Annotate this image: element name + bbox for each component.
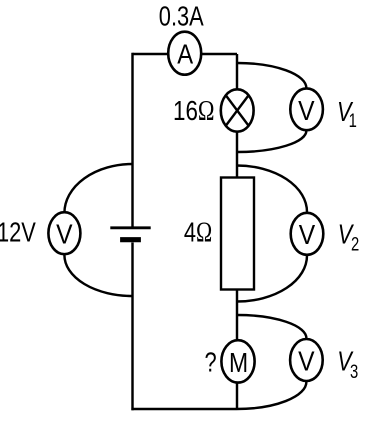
lamp cross stroke 2 (226, 95, 249, 126)
svg-text:M: M (229, 348, 248, 379)
lamp cross stroke 1 (226, 95, 249, 126)
wire: left side of loop (below battery) (131, 243, 133, 411)
battery cell (12V source): long thin positive plate (110, 226, 150, 229)
svg-text:0.3A: 0.3A (159, 1, 204, 32)
voltmeter V3 body (290, 339, 323, 381)
wire: arc from voltmeter V2 bottom to right wire (237, 256, 307, 302)
ammeter A1 body (168, 32, 201, 75)
svg-text:?: ? (205, 347, 217, 378)
wire: arc from right wire to voltmeter V3 top (237, 315, 306, 338)
wire: arc from left wire to voltmeter V (12V) top (64, 164, 132, 213)
svg-text:3: 3 (350, 361, 358, 382)
wire: right side of loop (236, 54, 238, 409)
motor M body (221, 340, 254, 382)
svg-text:2: 2 (351, 234, 359, 255)
wire: arc from voltmeter V (12V) bottom to left wire (64, 255, 132, 296)
svg-text:A: A (177, 37, 193, 69)
voltmeter V1 body (290, 88, 323, 130)
lamp (16 ohm) body (221, 89, 254, 131)
svg-text:4Ω: 4Ω (184, 217, 212, 248)
svg-text:12V: 12V (0, 217, 36, 248)
voltmeter V (battery, 12V) body (48, 212, 80, 254)
svg-text:V: V (298, 345, 315, 377)
svg-text:1: 1 (349, 110, 357, 131)
battery cell: short thick negative plate (120, 237, 141, 242)
voltmeter V2 body (291, 213, 324, 255)
svg-text:V: V (298, 95, 315, 127)
wire: bottom side of loop (131, 408, 236, 410)
resistor (4 ohm) body (221, 178, 254, 290)
wire: arc from right wire to voltmeter V1 top (237, 63, 306, 88)
svg-text:16Ω: 16Ω (173, 96, 215, 127)
wire: arc from right wire to voltmeter V2 top (237, 166, 307, 213)
wire: left side of loop (above battery) (131, 53, 133, 227)
svg-text:V: V (56, 218, 73, 250)
wire: arc from voltmeter V3 bottom to bottom wire (236, 382, 306, 409)
wire: top side of loop (133, 53, 238, 55)
wire: arc from voltmeter V1 bottom to right wire (237, 131, 306, 153)
svg-text:V: V (299, 219, 316, 251)
